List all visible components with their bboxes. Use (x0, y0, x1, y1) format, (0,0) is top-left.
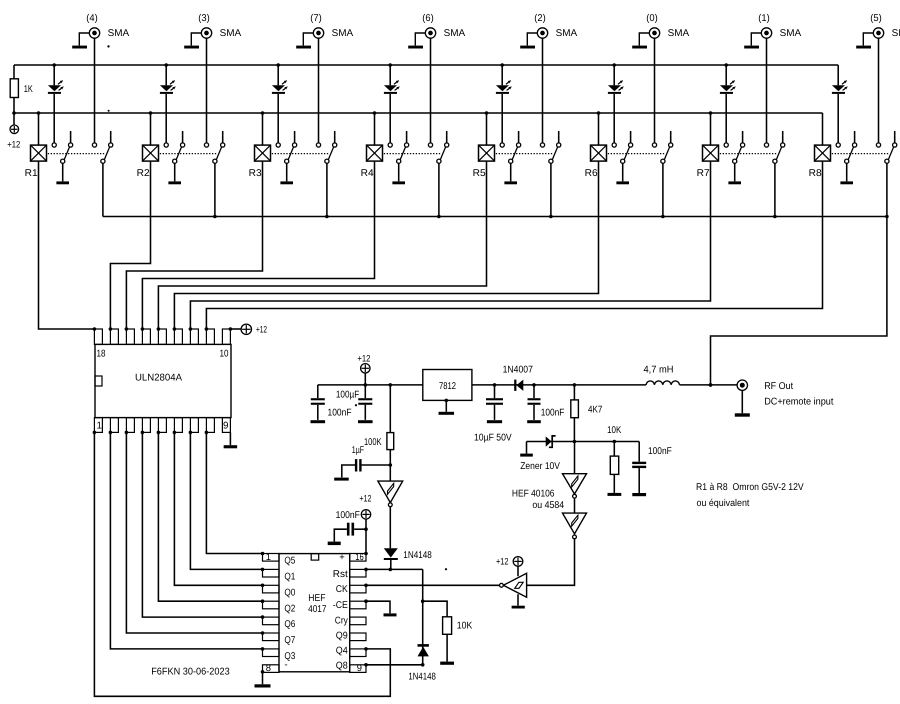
svg-text:SMA: SMA (780, 28, 802, 39)
svg-text:100nF: 100nF (541, 407, 565, 418)
svg-text:HEF: HEF (308, 593, 325, 604)
svg-text:Q6: Q6 (284, 619, 295, 630)
svg-text:10µF 50V: 10µF 50V (474, 433, 512, 444)
svg-text:-CE: -CE (333, 600, 348, 611)
svg-text:1N4148: 1N4148 (403, 550, 432, 561)
svg-text:Rst: Rst (333, 569, 348, 580)
svg-text:7812: 7812 (439, 381, 456, 392)
svg-text:Q2: Q2 (284, 603, 295, 614)
svg-text:Cry: Cry (335, 616, 348, 627)
svg-text:100K: 100K (364, 437, 382, 448)
svg-text:+12: +12 (496, 555, 509, 566)
svg-text:10K: 10K (457, 621, 473, 632)
svg-text:18: 18 (97, 349, 106, 360)
svg-text:DC+remote input: DC+remote input (764, 397, 833, 408)
svg-text:4,7 mH: 4,7 mH (644, 365, 674, 376)
svg-text:SMA: SMA (108, 28, 130, 39)
svg-text:SMA: SMA (444, 28, 466, 39)
svg-text:(4): (4) (86, 13, 98, 24)
svg-text:100nF: 100nF (328, 407, 352, 418)
svg-text:1N4007: 1N4007 (503, 365, 533, 376)
svg-text:9: 9 (357, 662, 362, 673)
svg-text:+: + (339, 551, 345, 562)
svg-text:(6): (6) (422, 13, 434, 24)
svg-text:R6: R6 (585, 168, 599, 179)
svg-text:SMA: SMA (220, 28, 242, 39)
svg-text:100µF: 100µF (336, 390, 359, 401)
svg-text:Q8: Q8 (336, 661, 348, 672)
svg-text:-: - (284, 660, 287, 671)
svg-text:R1: R1 (25, 168, 38, 179)
svg-text:R2: R2 (137, 168, 150, 179)
svg-text:(3): (3) (198, 13, 210, 24)
svg-text:R1 à R8 Omron G5V-2 12V: R1 à R8 Omron G5V-2 12V (696, 482, 804, 493)
svg-text:(0): (0) (646, 13, 658, 24)
svg-text:ou équivalent: ou équivalent (697, 498, 750, 509)
svg-text:4017: 4017 (308, 604, 326, 615)
svg-text:SMA: SMA (892, 28, 900, 39)
svg-text:16: 16 (355, 551, 364, 562)
svg-text:R7: R7 (697, 168, 710, 179)
svg-text:+12: +12 (359, 493, 371, 504)
svg-text:SMA: SMA (556, 28, 578, 39)
svg-text:Q0: Q0 (284, 587, 295, 598)
svg-text:(2): (2) (534, 13, 546, 24)
svg-text:R8: R8 (809, 168, 823, 179)
svg-text:RF Out: RF Out (764, 381, 793, 392)
svg-text:(1): (1) (758, 13, 770, 24)
svg-text:R3: R3 (249, 168, 263, 179)
svg-text:(7): (7) (310, 13, 322, 24)
svg-text:+12: +12 (7, 139, 20, 150)
svg-text:10K: 10K (607, 425, 622, 436)
svg-text:Q7: Q7 (284, 635, 295, 646)
svg-text:4K7: 4K7 (588, 405, 602, 416)
svg-text:R5: R5 (473, 168, 487, 179)
svg-text:SMA: SMA (668, 28, 690, 39)
svg-text:1µF: 1µF (352, 445, 364, 456)
svg-text:Q4: Q4 (336, 646, 348, 657)
svg-text:1: 1 (266, 551, 271, 562)
svg-text:F6FKN 30-06-2023: F6FKN 30-06-2023 (151, 667, 230, 678)
svg-text:+12: +12 (256, 323, 267, 334)
svg-text:Q1: Q1 (284, 572, 295, 583)
svg-text:Q9: Q9 (336, 630, 348, 641)
svg-text:(5): (5) (870, 13, 882, 24)
svg-text:HEF 40106: HEF 40106 (512, 489, 555, 500)
svg-text:SMA: SMA (332, 28, 354, 39)
svg-text:1: 1 (97, 421, 102, 432)
svg-text:Q5: Q5 (284, 556, 295, 567)
svg-text:1K: 1K (24, 84, 33, 95)
svg-text:100nF: 100nF (336, 510, 360, 521)
svg-text:Zener 10V: Zener 10V (520, 461, 560, 472)
svg-text:ou 4584: ou 4584 (532, 500, 564, 511)
svg-text:R4: R4 (361, 168, 375, 179)
svg-text:8: 8 (266, 662, 271, 673)
svg-text:10: 10 (220, 349, 229, 360)
svg-text:CK: CK (336, 584, 348, 595)
svg-text:+12: +12 (357, 353, 370, 364)
svg-text:1N4148: 1N4148 (408, 672, 436, 683)
svg-text:100nF: 100nF (648, 446, 672, 457)
svg-text:9: 9 (223, 421, 228, 432)
svg-text:ULN2804A: ULN2804A (135, 373, 182, 384)
